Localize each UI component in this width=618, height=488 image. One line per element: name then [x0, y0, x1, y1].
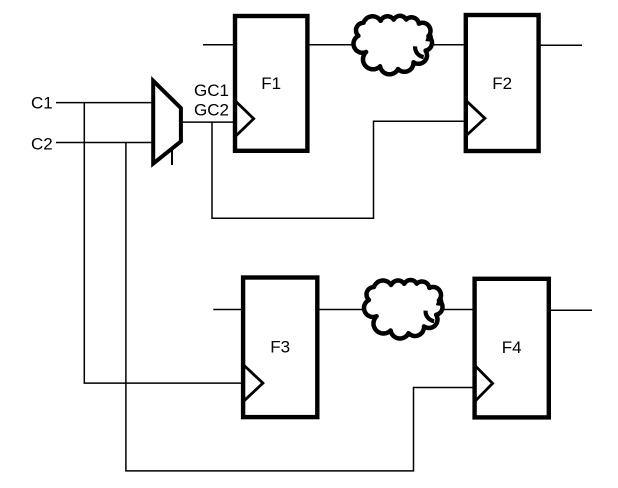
svg-text:C2: C2	[31, 135, 53, 154]
svg-text:GC2: GC2	[194, 101, 229, 120]
svg-text:F4: F4	[502, 338, 522, 357]
svg-text:F2: F2	[492, 74, 512, 93]
svg-text:F3: F3	[270, 337, 290, 356]
svg-text:C1: C1	[31, 94, 53, 113]
svg-text:F1: F1	[261, 74, 281, 93]
svg-text:GC1: GC1	[194, 81, 229, 100]
